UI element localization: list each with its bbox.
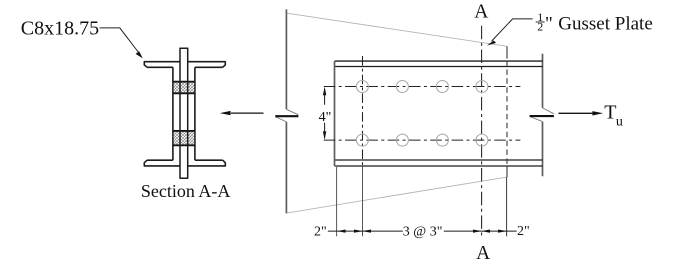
svg-text:2: 2 (537, 20, 543, 34)
svg-text:Gusset Plate: Gusset Plate (558, 13, 652, 34)
svg-text:T: T (604, 102, 616, 124)
svg-text:A: A (474, 1, 488, 22)
svg-text:": " (545, 13, 553, 34)
svg-text:u: u (616, 114, 623, 129)
svg-text:Section A-A: Section A-A (141, 181, 231, 201)
svg-text:3 @ 3": 3 @ 3" (403, 224, 443, 239)
svg-text:4": 4" (319, 110, 332, 125)
svg-text:2": 2" (314, 224, 327, 239)
svg-text:C8x18.75: C8x18.75 (21, 18, 99, 40)
svg-text:2": 2" (517, 224, 530, 239)
svg-text:A: A (476, 243, 490, 264)
